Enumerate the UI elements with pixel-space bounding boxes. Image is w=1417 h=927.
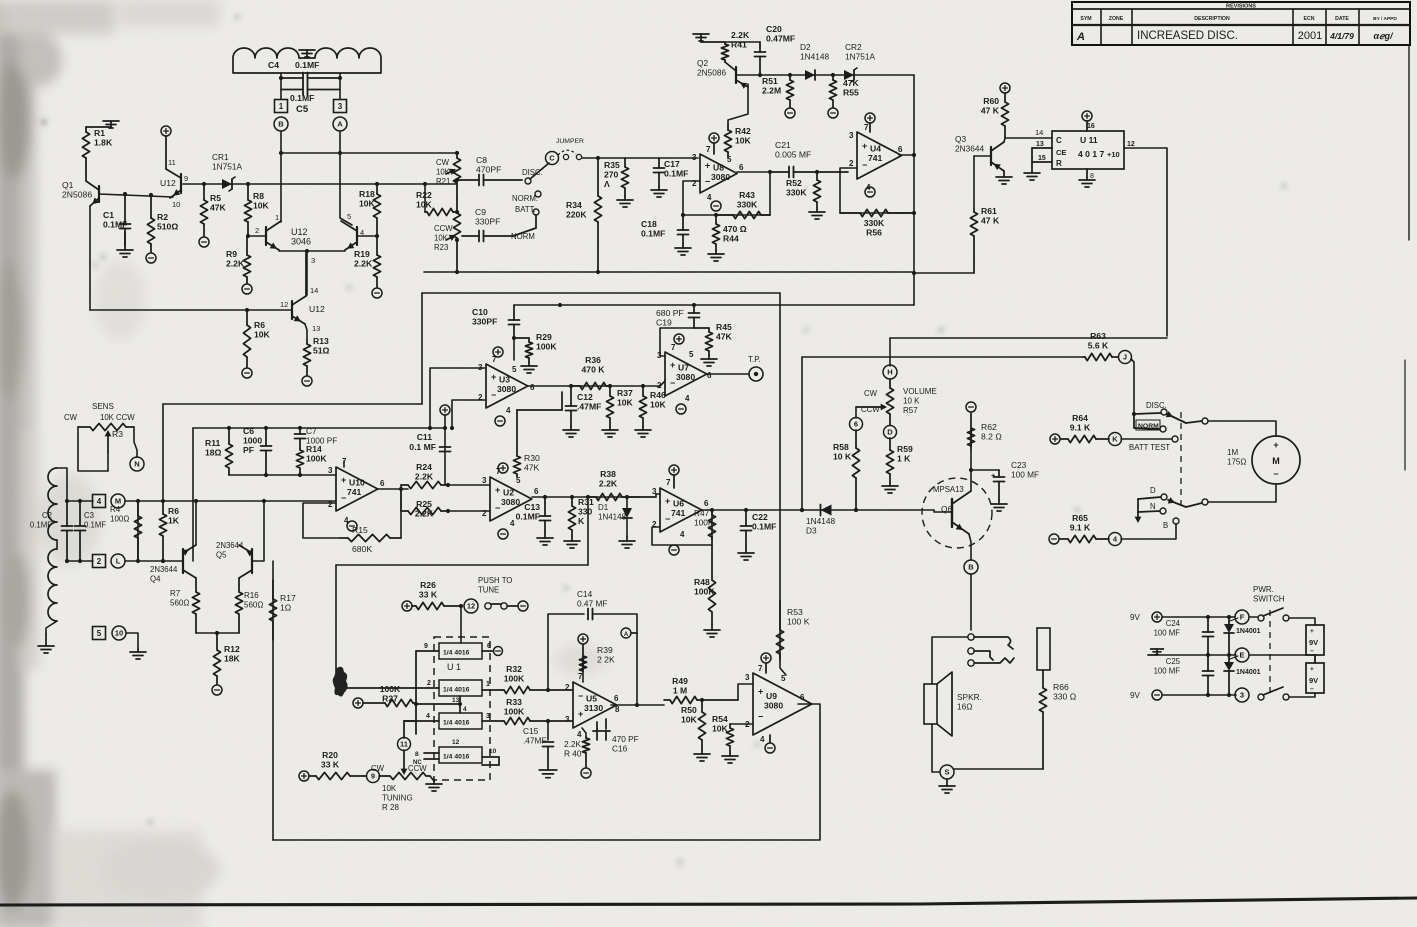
ground below C12 <box>563 426 579 437</box>
svg-text:U 11: U 11 <box>1080 135 1098 145</box>
svg-text:1/4 4016: 1/4 4016 <box>443 687 470 694</box>
svg-text:0.1MF: 0.1MF <box>641 229 665 239</box>
svg-text:8: 8 <box>1090 173 1094 180</box>
svg-text:R63: R63 <box>1090 331 1106 341</box>
svg-text:6: 6 <box>487 643 491 650</box>
BATT label <box>515 205 536 214</box>
search coil lower <box>48 549 57 621</box>
R15 value <box>352 544 372 554</box>
speaker SPKR 16ohm <box>924 672 952 736</box>
pin3 rail dots <box>264 473 302 477</box>
svg-text:R4: R4 <box>110 505 121 514</box>
svg-text:12: 12 <box>452 739 460 746</box>
U12b base wire <box>248 235 266 237</box>
svg-text:220K: 220K <box>566 210 587 220</box>
svg-text:10K CCW: 10K CCW <box>100 413 135 422</box>
svg-text:R26: R26 <box>420 580 436 590</box>
svg-text:9.1 K: 9.1 K <box>1070 523 1091 533</box>
NORM2 label <box>511 232 535 241</box>
svg-text:R1: R1 <box>94 128 105 138</box>
svg-text:CE: CE <box>1056 148 1066 157</box>
R4 labels <box>110 505 129 524</box>
svg-text:C12: C12 <box>577 392 593 402</box>
svg-text:R42: R42 <box>735 126 751 136</box>
plus above R60 <box>1000 83 1010 93</box>
R21 labels <box>436 158 451 186</box>
svg-text:13: 13 <box>1036 141 1044 148</box>
terminal 3 <box>334 100 347 113</box>
svg-text:R14: R14 <box>306 444 322 454</box>
svg-text:0.1MF: 0.1MF <box>290 93 314 103</box>
battery B2 9V <box>1306 663 1324 693</box>
svg-text:6: 6 <box>707 371 712 380</box>
svg-text:47K: 47K <box>843 78 860 88</box>
svg-text:4: 4 <box>97 497 102 506</box>
svg-text:100K: 100K <box>504 674 525 684</box>
svg-text:−: − <box>1310 648 1314 655</box>
svg-text:D: D <box>887 428 893 437</box>
plus left of R27 <box>353 698 363 708</box>
svg-text:SWITCH: SWITCH <box>1253 595 1285 604</box>
svg-text:R43: R43 <box>739 190 755 200</box>
svg-text:8: 8 <box>615 705 620 714</box>
U5 pin4 down <box>582 728 586 737</box>
title block: revisions table 'A INCREASED DISC. 2001' <box>1072 2 1410 45</box>
NORM-BATT-NORM switch <box>513 191 541 236</box>
U1 label <box>447 662 461 672</box>
K contact <box>1172 436 1178 442</box>
neg below R9 <box>242 284 252 294</box>
resistor R9 2.2K <box>226 236 251 283</box>
capacitor C1 0.1MF <box>103 194 131 246</box>
to U2 pin2 <box>448 510 490 512</box>
terminal B <box>274 117 288 131</box>
tail stem <box>306 251 308 295</box>
D1 leads <box>626 497 628 508</box>
svg-text:100 MF: 100 MF <box>1154 629 1181 638</box>
IC U1 dashed outline <box>434 637 490 780</box>
transistor U12d pins 12-14-13 <box>292 251 306 324</box>
resistor R5 47K <box>200 184 226 236</box>
svg-text:1N4148: 1N4148 <box>806 516 835 526</box>
pin 14 <box>310 286 318 295</box>
svg-text:R3: R3 <box>112 429 123 439</box>
U9 pin2 wire <box>730 723 753 725</box>
svg-text:R 28: R 28 <box>382 803 399 812</box>
svg-text:TUNE: TUNE <box>478 586 499 595</box>
rail305 dots <box>558 303 696 307</box>
rail y428 <box>193 427 445 429</box>
svg-text:R45: R45 <box>716 322 732 332</box>
R62 labels <box>981 422 1002 442</box>
op-amp U10 741 <box>328 457 385 525</box>
svg-text:C: C <box>1056 136 1062 145</box>
R17 column <box>272 561 274 840</box>
R45 link <box>694 327 709 329</box>
svg-text:+: + <box>665 496 670 506</box>
svg-text:R39: R39 <box>597 645 613 655</box>
svg-text:U7: U7 <box>678 362 689 372</box>
svg-text:INCREASED DISC.: INCREASED DISC. <box>1137 30 1238 42</box>
ground below R35 <box>617 196 633 207</box>
svg-text:2N5086: 2N5086 <box>62 190 92 200</box>
svg-text:2 2K: 2 2K <box>597 655 615 665</box>
ground below R54 <box>722 752 738 763</box>
IC U1 switch 1/4 4016 #3 <box>439 713 482 729</box>
neg below U6 <box>669 545 679 555</box>
JUMPER label <box>556 138 584 145</box>
svg-text:R62: R62 <box>981 422 997 432</box>
svg-text:14: 14 <box>1035 128 1043 137</box>
capacitor C4 0.1MF <box>281 73 340 84</box>
pin 4 <box>360 228 364 237</box>
ground below 10 <box>130 648 146 659</box>
resistor R25 2.2K <box>401 499 448 519</box>
svg-text:4: 4 <box>680 530 685 539</box>
svg-text:1: 1 <box>279 102 284 111</box>
Q6 base <box>934 510 952 512</box>
svg-text:REVISIONS: REVISIONS <box>1226 4 1256 10</box>
svg-text:1 M: 1 M <box>673 686 687 696</box>
svg-text:R6: R6 <box>168 506 179 516</box>
svg-text:10K: 10K <box>650 400 667 410</box>
R4 column <box>137 501 139 561</box>
resistor R16 560 <box>235 578 242 633</box>
svg-text:0.47MF: 0.47MF <box>766 34 795 44</box>
svg-text:1N751A: 1N751A <box>845 52 875 62</box>
pwr mid rail <box>1157 654 1236 656</box>
4016-2/3 mid pins <box>404 651 467 734</box>
svg-text:αℯɡ/: αℯɡ/ <box>1374 31 1394 41</box>
search coil upper <box>48 468 57 540</box>
svg-text:3: 3 <box>482 476 487 485</box>
svg-text:1/4 4016: 1/4 4016 <box>443 720 470 727</box>
neg terminal below R5 <box>199 237 209 247</box>
U6 feedback loop <box>711 510 713 540</box>
svg-text:C11: C11 <box>417 432 433 442</box>
pot R23 CCW 10K <box>453 198 460 272</box>
C16 labels <box>612 734 639 754</box>
svg-text:R21: R21 <box>436 177 450 186</box>
capacitor C7 1000PF <box>295 428 306 448</box>
capacitor C13 0.1MF <box>516 497 551 533</box>
svg-text:B: B <box>1163 521 1168 530</box>
plus above U3 <box>493 347 503 357</box>
R53 labels <box>787 607 810 627</box>
resistor R52 330K <box>786 172 821 208</box>
svg-text:6: 6 <box>854 420 858 429</box>
resistor R37 10K <box>606 386 633 426</box>
pin 13 <box>312 324 320 333</box>
R22 left vert <box>424 184 426 212</box>
svg-text:2.2K: 2.2K <box>564 739 582 749</box>
ground below C22 <box>738 548 754 560</box>
svg-text:47 K: 47 K <box>981 106 1000 116</box>
transistor Q3 2N3644 <box>991 142 1004 171</box>
svg-text:8: 8 <box>415 751 419 758</box>
svg-text:270: 270 <box>604 170 619 180</box>
coil lower to L rail <box>67 560 93 562</box>
ground below S <box>939 779 955 793</box>
resistor R41 2.2K <box>721 30 750 62</box>
svg-text:0.1MF: 0.1MF <box>752 522 776 532</box>
rail y310 from Q1 emitter <box>90 309 292 311</box>
svg-text:330 Ω: 330 Ω <box>1053 692 1077 702</box>
svg-text:15: 15 <box>1038 155 1046 162</box>
neg below U10 <box>347 521 357 531</box>
svg-text:330: 330 <box>578 507 593 517</box>
svg-text:2.2K: 2.2K <box>599 479 618 489</box>
Q1 label <box>62 180 92 200</box>
svg-text:5: 5 <box>97 629 102 638</box>
U5 out <box>611 704 664 706</box>
terminal 11 <box>398 738 411 751</box>
svg-text:510Ω: 510Ω <box>157 222 178 232</box>
svg-text:13: 13 <box>452 697 460 704</box>
4016-4 left pins <box>413 751 439 766</box>
SENS labels <box>92 402 114 411</box>
C9 labels <box>475 207 500 227</box>
pwr bottom dots <box>1206 693 1231 697</box>
C7 labels <box>306 426 337 446</box>
svg-text:1N4001: 1N4001 <box>1236 669 1261 676</box>
VOLUME labels <box>903 387 937 415</box>
terminal D <box>884 426 897 439</box>
wire coil to terminal 1 <box>280 73 282 99</box>
svg-text:3130: 3130 <box>584 703 603 713</box>
svg-text:6: 6 <box>800 693 805 702</box>
meter labels <box>1227 448 1246 467</box>
svg-text:1/4 4016: 1/4 4016 <box>443 650 470 657</box>
x802 dots <box>800 508 804 512</box>
svg-text:3: 3 <box>1240 691 1244 700</box>
neg below U7 <box>676 404 686 414</box>
rail y565 <box>336 564 588 566</box>
C11 column <box>444 415 446 485</box>
svg-text:PF: PF <box>243 445 254 455</box>
svg-text:C15: C15 <box>523 726 539 736</box>
DISC sw label <box>1146 401 1167 410</box>
U7 out to TP <box>707 373 749 375</box>
to U2 pin3 <box>448 484 490 486</box>
arm node upper <box>1186 418 1208 424</box>
plus left of R26 <box>402 601 412 611</box>
U10 pin2 loop <box>303 503 340 538</box>
svg-text:2N3644: 2N3644 <box>216 541 244 550</box>
svg-text:C17: C17 <box>664 159 680 169</box>
R15 labels <box>352 525 368 535</box>
ground below D1 <box>619 536 635 548</box>
mech link dashed <box>1180 412 1182 505</box>
svg-text:J: J <box>1123 353 1127 362</box>
base junction dots <box>246 234 379 238</box>
ground below pin15 loop <box>1024 162 1040 180</box>
svg-text:+: + <box>991 471 996 480</box>
svg-text:3: 3 <box>338 102 343 111</box>
svg-text:10 K: 10 K <box>903 397 920 406</box>
vertical x914 <box>913 75 915 305</box>
10 wire <box>126 633 138 648</box>
PWR SWITCH label <box>1253 585 1285 604</box>
svg-text:12: 12 <box>280 300 288 309</box>
svg-text:JUMPER: JUMPER <box>556 138 584 145</box>
svg-text:R: R <box>1056 159 1062 168</box>
svg-text:−: − <box>341 493 346 503</box>
Q5 base right <box>252 501 264 561</box>
terminal K <box>1109 433 1122 446</box>
svg-text:R47: R47 <box>694 508 710 518</box>
svg-text:D1: D1 <box>598 503 609 512</box>
12 down to U1 <box>460 606 462 643</box>
ground below R59 <box>882 482 898 493</box>
svg-text:680 PF: 680 PF <box>656 308 684 318</box>
pin 14 label <box>1035 128 1043 137</box>
fb bottom <box>652 527 712 545</box>
ground above R1 <box>86 121 119 128</box>
resistor R32 100K <box>502 664 572 694</box>
D2 rail <box>736 74 914 76</box>
svg-text:Λ: Λ <box>604 179 610 189</box>
DISC label <box>522 168 543 177</box>
svg-text:Q5: Q5 <box>216 551 227 560</box>
svg-text:1 K: 1 K <box>897 454 911 464</box>
capacitor C25 100MF <box>1203 655 1214 695</box>
emitter tail rail <box>279 250 345 252</box>
svg-text:6: 6 <box>614 694 619 703</box>
svg-text:D3: D3 <box>806 526 817 536</box>
plus above U6 <box>669 465 679 488</box>
svg-text:PWR.: PWR. <box>1253 585 1274 594</box>
pin 5 <box>347 212 351 221</box>
svg-text:1N4148: 1N4148 <box>598 513 627 522</box>
svg-text:T.P.: T.P. <box>748 355 761 364</box>
svg-text:3: 3 <box>657 351 662 360</box>
svg-text:7: 7 <box>666 478 671 487</box>
R50 dot <box>700 698 704 702</box>
transistor U12a pins 11-9-10 <box>166 136 181 198</box>
resistor R31 330K <box>568 497 594 536</box>
svg-text:3080: 3080 <box>501 497 520 507</box>
C15 column <box>547 721 549 740</box>
svg-text:−: − <box>862 160 867 170</box>
svg-text:U10: U10 <box>349 477 365 487</box>
plus above U7 <box>674 334 684 344</box>
U2 out <box>532 496 656 498</box>
svg-text:BY / APPD: BY / APPD <box>1373 16 1397 22</box>
C19 labels <box>656 308 684 328</box>
svg-text:R27: R27 <box>382 694 398 704</box>
R66 to S rail <box>954 768 1043 770</box>
svg-text:+: + <box>670 360 675 370</box>
svg-text:7: 7 <box>758 664 763 673</box>
terminal 4 <box>1109 533 1122 546</box>
junction dots rail 184 <box>202 182 427 186</box>
svg-text:+: + <box>705 161 710 171</box>
svg-text:9V: 9V <box>1309 638 1318 647</box>
svg-text:14: 14 <box>310 286 318 295</box>
Q2 label <box>697 58 726 78</box>
U6 out dot <box>710 508 748 512</box>
junction dots top rail <box>279 151 342 155</box>
pin 3 <box>311 256 315 265</box>
svg-text:VOLUME: VOLUME <box>903 387 937 396</box>
NORM label <box>512 194 538 203</box>
svg-text:C18: C18 <box>641 219 657 229</box>
rail node B-A <box>281 152 457 154</box>
svg-text:SYM: SYM <box>1080 16 1091 22</box>
battery B1 9V <box>1306 625 1324 655</box>
plus supply above U12a <box>161 126 171 136</box>
svg-text:8.2 Ω: 8.2 Ω <box>981 432 1002 442</box>
U8 out <box>737 171 770 173</box>
NORM contact <box>1134 414 1166 432</box>
batt1 top wire <box>1289 618 1315 625</box>
capacitor C8 470PF <box>457 175 522 186</box>
svg-text:R15: R15 <box>352 525 368 535</box>
U3 out <box>528 385 660 387</box>
svg-text:10K: 10K <box>735 136 752 146</box>
U2 out dots <box>543 495 629 499</box>
resistor R17 1 <box>269 580 276 640</box>
svg-text:U2: U2 <box>503 487 514 497</box>
svg-text:6: 6 <box>704 499 709 508</box>
svg-text:3: 3 <box>328 466 333 475</box>
MPSA13 label <box>933 485 964 494</box>
svg-text:33 K: 33 K <box>419 590 438 600</box>
rail y293 <box>422 292 780 294</box>
D3 dots <box>800 508 858 512</box>
capacitor C14 0.47MF <box>588 609 593 620</box>
R3 right down <box>134 427 137 457</box>
op-amp U7 3080 <box>657 343 712 403</box>
svg-text:U12: U12 <box>160 178 176 188</box>
svg-text:1: 1 <box>486 681 490 688</box>
D1 labels <box>598 503 627 522</box>
svg-text:CR1: CR1 <box>212 152 229 162</box>
ground below R46 <box>635 426 651 437</box>
svg-text:2.2K: 2.2K <box>354 259 373 269</box>
svg-text:A: A <box>624 632 629 638</box>
vert x422 <box>421 293 423 404</box>
D low label <box>1150 486 1156 495</box>
svg-text:9V: 9V <box>1309 676 1318 685</box>
capacitor C24 100MF <box>1203 617 1214 655</box>
svg-text:+10: +10 <box>1107 150 1120 159</box>
svg-text:NORM: NORM <box>1138 423 1159 430</box>
U12a pin labels <box>168 158 176 167</box>
svg-text:R38: R38 <box>600 469 616 479</box>
svg-text:2N3644: 2N3644 <box>955 144 984 154</box>
4016-1 left pin <box>416 643 439 651</box>
ground below R44 <box>708 250 724 261</box>
svg-text:R25: R25 <box>416 499 432 509</box>
pin 8 label <box>1090 173 1094 180</box>
diode D4 1N4001 <box>1224 617 1261 655</box>
svg-text:NORM: NORM <box>511 232 535 241</box>
pwr mech link dashed <box>1269 610 1271 696</box>
svg-text:4: 4 <box>510 519 515 528</box>
U12d emitter down <box>305 324 307 340</box>
ground left of R41 <box>693 34 725 42</box>
terminal sq4 <box>93 495 106 508</box>
svg-text:C9: C9 <box>475 207 486 217</box>
C10 dot <box>512 336 516 340</box>
resistor R63 5.6K <box>1083 331 1118 361</box>
resistor R60 47K <box>981 94 1009 138</box>
ink blob artifact <box>333 667 348 697</box>
IC U1 switch 1/4 4016 #2 <box>439 680 482 696</box>
U12a name <box>160 178 176 188</box>
